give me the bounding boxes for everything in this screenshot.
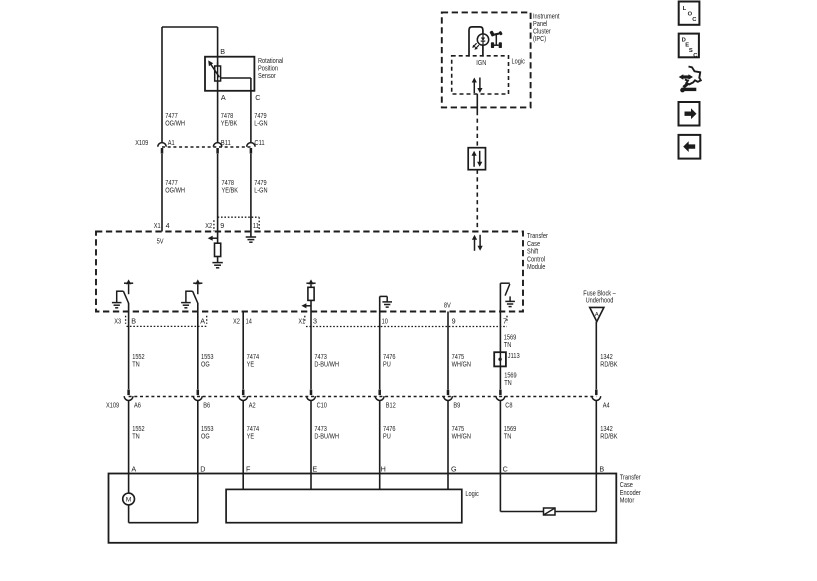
- svg-text:RD/BK: RD/BK: [600, 360, 617, 369]
- svg-text:D-BU/WH: D-BU/WH: [314, 360, 339, 369]
- svg-text:A4: A4: [603, 400, 610, 409]
- svg-text:M: M: [126, 497, 132, 504]
- svg-text:10: 10: [382, 317, 388, 326]
- svg-text:WH/GN: WH/GN: [452, 432, 471, 441]
- svg-text:Module: Module: [527, 262, 545, 271]
- svg-text:D-BU/WH: D-BU/WH: [314, 432, 339, 441]
- svg-text:Sensor: Sensor: [258, 71, 276, 80]
- svg-text:X2: X2: [205, 221, 212, 230]
- svg-text:RD/BK: RD/BK: [600, 432, 617, 441]
- svg-text:B9: B9: [453, 400, 460, 409]
- svg-text:C: C: [503, 465, 508, 474]
- svg-text:A: A: [221, 93, 226, 102]
- svg-text:TN: TN: [132, 360, 140, 369]
- svg-text:Underhood: Underhood: [586, 295, 614, 304]
- svg-text:A1: A1: [168, 138, 175, 147]
- svg-text:YE/BK: YE/BK: [222, 186, 239, 195]
- svg-text:X1: X1: [154, 221, 161, 230]
- svg-text:YE: YE: [247, 360, 255, 369]
- svg-text:TN: TN: [504, 340, 512, 349]
- svg-text:(IPC): (IPC): [533, 34, 546, 43]
- svg-text:C11: C11: [254, 138, 264, 147]
- svg-text:D: D: [200, 465, 205, 474]
- svg-text:14: 14: [246, 317, 252, 326]
- svg-text:X3: X3: [114, 317, 121, 326]
- svg-text:TN: TN: [504, 378, 512, 387]
- svg-text:A: A: [200, 317, 205, 326]
- svg-text:3: 3: [313, 317, 317, 326]
- svg-text:X109: X109: [135, 138, 148, 147]
- svg-text:WH/GN: WH/GN: [452, 360, 471, 369]
- svg-text:B11: B11: [221, 138, 231, 147]
- svg-text:PU: PU: [383, 432, 391, 441]
- svg-text:E: E: [312, 465, 317, 474]
- svg-text:B6: B6: [203, 400, 210, 409]
- svg-text:YE/BK: YE/BK: [221, 119, 238, 128]
- svg-text:X109: X109: [106, 400, 119, 409]
- svg-text:A2: A2: [249, 400, 256, 409]
- svg-text:9: 9: [220, 221, 224, 230]
- svg-text:IGN: IGN: [476, 58, 486, 67]
- svg-text:YE: YE: [247, 432, 255, 441]
- svg-text:OG/WH: OG/WH: [165, 119, 185, 128]
- svg-text:X2: X2: [233, 317, 240, 326]
- svg-text:5V: 5V: [157, 237, 164, 246]
- svg-text:X1: X1: [298, 317, 305, 326]
- svg-text:9: 9: [452, 317, 456, 326]
- svg-text:B: B: [131, 317, 136, 326]
- svg-text:8V: 8V: [444, 300, 451, 309]
- svg-text:G: G: [451, 465, 457, 474]
- svg-text:C10: C10: [317, 400, 327, 409]
- svg-text:11: 11: [253, 221, 259, 230]
- svg-text:B: B: [599, 465, 604, 474]
- svg-text:4: 4: [166, 221, 170, 230]
- svg-text:L-GN: L-GN: [254, 119, 267, 128]
- svg-text:OG: OG: [201, 360, 210, 369]
- svg-text:OG: OG: [201, 432, 210, 441]
- svg-text:C8: C8: [505, 400, 512, 409]
- svg-text:PU: PU: [383, 360, 391, 369]
- svg-text:B12: B12: [386, 400, 396, 409]
- svg-text:H: H: [381, 465, 386, 474]
- svg-text:Logic: Logic: [465, 489, 479, 498]
- svg-text:L: L: [683, 6, 687, 12]
- svg-text:A: A: [131, 465, 136, 474]
- svg-text:OG/WH: OG/WH: [165, 186, 185, 195]
- svg-text:Motor: Motor: [620, 496, 635, 505]
- svg-text:TN: TN: [504, 432, 512, 441]
- svg-text:A: A: [595, 312, 599, 318]
- svg-text:B: B: [220, 47, 225, 56]
- svg-text:J113: J113: [508, 351, 520, 360]
- svg-text:Logic: Logic: [512, 56, 526, 65]
- svg-text:L-GN: L-GN: [254, 186, 267, 195]
- svg-text:C: C: [255, 93, 260, 102]
- svg-text:7: 7: [503, 317, 507, 326]
- svg-text:F: F: [246, 465, 251, 474]
- svg-text:A6: A6: [134, 400, 141, 409]
- svg-text:TN: TN: [132, 432, 140, 441]
